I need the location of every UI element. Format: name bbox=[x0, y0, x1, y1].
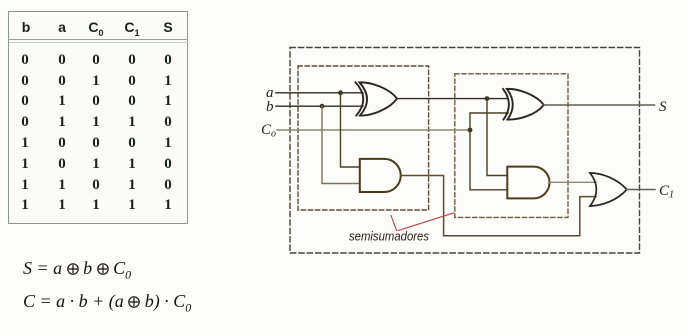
wire input b bbox=[276, 105, 363, 107]
wire b to AND1 bbox=[322, 106, 360, 183]
svg-text:semisumadores: semisumadores bbox=[349, 230, 429, 244]
svg-text:S: S bbox=[659, 99, 667, 115]
formula S = a xor b xor C0 bbox=[23, 258, 131, 283]
pointer line to half-adder 2 bbox=[399, 213, 454, 230]
svg-text:b: b bbox=[266, 99, 274, 115]
formula C = a.b + (a xor b).C0 bbox=[23, 291, 191, 316]
inner dashed box half-adder 2 bbox=[455, 74, 568, 218]
junction node S1 bbox=[485, 96, 490, 101]
AND gate U2 (half-adder 1) bbox=[360, 159, 401, 192]
wire a to AND1 bbox=[341, 93, 360, 167]
junction node a bbox=[338, 90, 343, 95]
wire AND2 output to OR bbox=[550, 181, 596, 183]
wire S1 to AND2 bbox=[487, 99, 507, 176]
junction node b bbox=[320, 104, 325, 109]
svg-text:C1: C1 bbox=[659, 183, 674, 201]
XOR gate U3 (half-adder 2) bbox=[503, 89, 544, 120]
wire XOR2 output to S bbox=[544, 104, 655, 106]
OR gate U5 bbox=[590, 173, 627, 206]
AND gate U4 (half-adder 2) bbox=[507, 167, 549, 199]
wire AND1 output route to OR bbox=[401, 176, 596, 236]
inner dashed box half-adder 1 bbox=[298, 66, 429, 210]
pointer line to half-adder 1 bbox=[391, 216, 397, 231]
XOR gate U1 (half-adder 1) bbox=[356, 82, 397, 115]
svg-text:Co: Co bbox=[261, 122, 276, 140]
outer dashed box (full adder) bbox=[290, 48, 640, 254]
wire input Co bbox=[277, 129, 470, 131]
wire XOR1 output (S1) bbox=[398, 98, 508, 100]
wire Co riser to AND2 bbox=[470, 130, 507, 190]
wire Co riser to XOR2 bbox=[470, 113, 508, 130]
wire input a bbox=[276, 92, 363, 94]
header separator bbox=[9, 39, 188, 43]
table data bbox=[15, 50, 35, 70]
header labels bbox=[14, 19, 38, 35]
junction node Co2 bbox=[468, 128, 473, 133]
wire OR output to C1 bbox=[627, 189, 655, 191]
truth table frame bbox=[8, 11, 188, 224]
